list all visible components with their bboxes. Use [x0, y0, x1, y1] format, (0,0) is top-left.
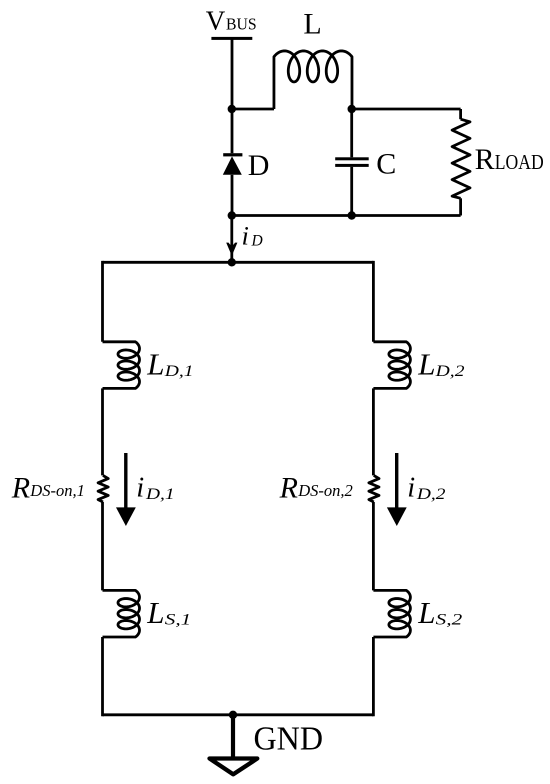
right branch upper wire	[372, 261, 375, 342]
inductor L_S,1	[103, 590, 140, 637]
svg-text:D,2: D,2	[434, 363, 464, 380]
label C	[376, 148, 396, 181]
left branch upper wire	[101, 261, 104, 342]
svg-text:L: L	[146, 595, 164, 630]
resistor R_LOAD	[452, 109, 470, 216]
label L_S,2	[417, 595, 462, 630]
svg-text:D,1: D,1	[164, 363, 194, 380]
left branch wire to L_S,1	[101, 502, 104, 590]
label L_D,1	[146, 346, 193, 381]
svg-text:L: L	[417, 346, 435, 381]
svg-text:L: L	[417, 595, 435, 630]
node GND junction	[229, 711, 237, 719]
right branch wire to R_DS-on,2	[372, 388, 375, 475]
node D-bottom junction	[228, 211, 236, 219]
inductor L_D,1	[103, 342, 140, 389]
svg-text:D: D	[248, 149, 270, 182]
ground stem	[231, 715, 235, 757]
label i_D,1	[136, 473, 174, 504]
label L_S,1	[146, 595, 191, 630]
bottom wire	[103, 713, 374, 716]
top wire of parallel branch rectangle	[103, 261, 374, 264]
label L	[303, 8, 321, 41]
svg-text:GND: GND	[254, 720, 324, 757]
svg-text:BUS: BUS	[226, 14, 257, 33]
label R_DS-on,2	[279, 472, 354, 505]
wire node to i_D node with current arrow	[230, 216, 233, 263]
right branch wire to bottom	[372, 637, 375, 716]
svg-text:R: R	[475, 143, 495, 176]
label R_LOAD	[475, 143, 544, 176]
left branch wire to bottom	[101, 637, 104, 716]
current arrow i_D	[226, 243, 237, 256]
inductor L_D,2	[373, 342, 410, 389]
svg-text:C: C	[376, 148, 396, 181]
current arrow i_D,1	[116, 453, 136, 526]
svg-text:L: L	[303, 8, 321, 41]
capacitor C	[335, 109, 369, 216]
svg-text:i: i	[136, 473, 144, 504]
svg-text:L: L	[146, 346, 164, 381]
svg-text:D,2: D,2	[416, 486, 446, 503]
svg-text:DS-on,1: DS-on,1	[29, 481, 85, 500]
svg-text:D: D	[251, 232, 263, 249]
svg-text:V: V	[206, 5, 226, 35]
wire node A to inductor L	[232, 108, 274, 111]
label V_BUS	[206, 5, 257, 35]
label D	[248, 149, 270, 182]
svg-text:i: i	[242, 220, 249, 250]
label i_D	[242, 220, 263, 250]
V_BUS terminal bar	[211, 37, 252, 40]
node A (bus node)	[228, 105, 236, 113]
resistor R_DS-on,2	[369, 475, 379, 502]
label GND	[254, 720, 324, 757]
label L_D,2	[417, 346, 465, 381]
inductor L_S,2	[373, 590, 410, 637]
node E (split node)	[228, 258, 236, 266]
svg-text:S,1: S,1	[165, 612, 192, 629]
node B (L / C junction)	[348, 105, 356, 113]
wire diode bottom to C bottom to R_LOAD bottom	[232, 214, 461, 217]
node C-bottom junction	[348, 211, 356, 219]
ground symbol	[210, 759, 258, 775]
svg-text:LOAD: LOAD	[495, 150, 544, 174]
diode D	[223, 109, 243, 216]
label i_D,2	[407, 473, 445, 504]
wire V_BUS to node A	[231, 40, 234, 110]
svg-text:i: i	[407, 473, 415, 504]
resistor R_DS-on,1	[98, 475, 108, 502]
right branch wire to L_S,2	[372, 502, 375, 590]
svg-text:D,1: D,1	[145, 486, 175, 503]
label R_DS-on,1	[11, 472, 85, 505]
wire node B to R_LOAD top	[352, 108, 461, 111]
svg-text:DS-on,2: DS-on,2	[297, 481, 353, 500]
svg-text:R: R	[279, 472, 298, 505]
svg-text:S,2: S,2	[436, 612, 463, 629]
current arrow i_D,2	[387, 453, 407, 526]
svg-text:R: R	[11, 472, 30, 505]
inductor L	[274, 51, 352, 109]
left branch wire to R_DS-on,1	[101, 388, 104, 475]
